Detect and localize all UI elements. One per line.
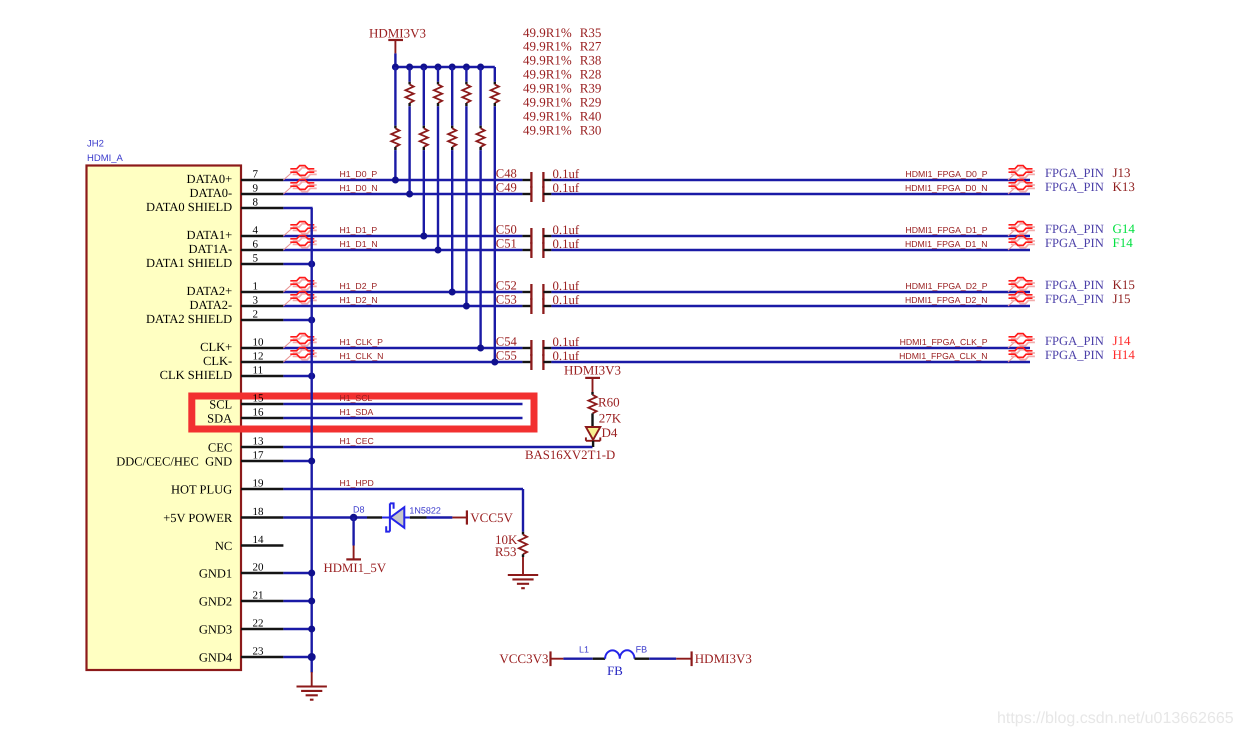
svg-text:DATA2 SHIELD: DATA2 SHIELD (146, 312, 232, 326)
differential pair marker on H1_D2_N (283, 292, 316, 306)
wire HDMI1_FPGA_D1_P right segment (551, 235, 1030, 237)
ground stem under connector (311, 672, 313, 687)
svg-text:C50: C50 (496, 223, 517, 237)
svg-text:H1_CEC: H1_CEC (340, 436, 374, 446)
svg-text:DATA2+: DATA2+ (187, 284, 233, 298)
svg-text:H14: H14 (1113, 347, 1136, 362)
differential pair marker on H1_D0_P (283, 166, 316, 180)
svg-text:BAS16XV2T1-D: BAS16XV2T1-D (525, 448, 615, 462)
pin 20 GND1 stub and number (199, 562, 284, 581)
svg-text:+5V POWER: +5V POWER (163, 511, 233, 525)
svg-text:GND2: GND2 (199, 594, 232, 608)
junction bus col 1 (392, 64, 399, 71)
value label 49.9R1% R30 (523, 122, 601, 137)
junction bus col 2 (406, 64, 413, 71)
svg-text:https://blog.csdn.net/u0136626: https://blog.csdn.net/u013662665 (997, 710, 1234, 727)
shield/ground bus vertical wire (311, 208, 313, 673)
value label 49.9R1% R29 (523, 95, 601, 110)
value label 49.9R1% R28 (523, 67, 601, 82)
svg-text:J15: J15 (1113, 291, 1131, 306)
junction bus col 4 (435, 64, 442, 71)
svg-text:DATA1 SHIELD: DATA1 SHIELD (146, 256, 232, 270)
svg-text:SCL: SCL (209, 397, 232, 411)
wire HDMI1_FPGA_D0_P right segment (551, 179, 1030, 181)
differential pair marker on HDMI1_FPGA_D2_N (1008, 292, 1035, 306)
svg-text:HDMI1_5V: HDMI1_5V (324, 561, 387, 575)
svg-text:H1_D0_P: H1_D0_P (340, 169, 378, 179)
svg-text:FPGA_PIN: FPGA_PIN (1045, 166, 1104, 180)
capacitor C53 0.1uf (496, 293, 580, 314)
differential pair marker on H1_CLK_N (283, 348, 316, 362)
port FPGA_PIN J13 (1045, 165, 1131, 180)
pin 15 SCL stub and number (209, 393, 283, 412)
wire H1_CLK_P left segment (283, 347, 522, 349)
svg-text:L1: L1 (579, 644, 589, 654)
junction bus GND1 (308, 570, 315, 577)
svg-text:49.9R1%: 49.9R1% (523, 53, 572, 68)
svg-text:F14: F14 (1113, 235, 1134, 250)
svg-text:C54: C54 (496, 335, 518, 349)
svg-text:FPGA_PIN: FPGA_PIN (1045, 236, 1104, 250)
ground symbol R53 (508, 575, 538, 588)
junction shield bus at pin 11 (308, 373, 315, 380)
wire DATA0 SHIELD to shield bus (283, 207, 312, 209)
resistor R60 27K (588, 392, 621, 427)
capacitor C55 0.1uf (496, 349, 580, 370)
svg-text:CEC: CEC (208, 440, 232, 454)
svg-text:GND3: GND3 (199, 622, 232, 636)
resistor R30 49.9R 1% (491, 67, 499, 362)
capacitor C51 0.1uf (496, 237, 580, 258)
svg-text:H1_D2_N: H1_D2_N (340, 295, 378, 305)
port FPGA_PIN G14 (1045, 221, 1135, 236)
wire H1_D1_P left segment (283, 235, 522, 237)
junction R39 to row wire (449, 289, 456, 296)
differential pair marker on HDMI1_FPGA_CLK_N (1008, 348, 1035, 362)
svg-text:5: 5 (253, 253, 259, 265)
svg-text:R30: R30 (580, 122, 602, 137)
svg-text:49.9R1%: 49.9R1% (523, 25, 572, 40)
svg-text:49.9R1%: 49.9R1% (523, 122, 572, 137)
diode D8 1N5822 schottky (382, 503, 410, 531)
svg-text:H1_CLK_P: H1_CLK_P (340, 337, 384, 347)
svg-text:FB: FB (636, 644, 648, 654)
wire GND1 to bus (283, 572, 311, 574)
svg-text:HDMI1_FPGA_CLK_N: HDMI1_FPGA_CLK_N (899, 351, 987, 361)
svg-text:R38: R38 (580, 53, 602, 68)
svg-text:6: 6 (253, 239, 259, 251)
svg-text:16: 16 (253, 407, 265, 419)
svg-text:C49: C49 (496, 181, 517, 195)
svg-text:GND4: GND4 (199, 650, 233, 664)
junction bus pin 17 (308, 458, 315, 465)
svg-text:8: 8 (253, 197, 259, 209)
svg-text:C48: C48 (496, 167, 517, 181)
svg-text:17: 17 (253, 450, 265, 462)
svg-text:H1_D1_N: H1_D1_N (340, 239, 378, 249)
differential pair marker on H1_D0_N (283, 180, 316, 194)
wire HDMI1_FPGA_CLK_P right segment (551, 347, 1030, 349)
svg-text:DATA1+: DATA1+ (187, 228, 233, 242)
capacitor C50 0.1uf (496, 223, 580, 244)
ground stem R53 (522, 557, 524, 575)
junction R30 to row wire (491, 359, 498, 366)
port FPGA_PIN J15 (1045, 291, 1131, 306)
differential pair marker on H1_CLK_P (283, 334, 316, 348)
wire L1 to HDMI3V3 (649, 658, 676, 660)
svg-text:FPGA_PIN: FPGA_PIN (1045, 278, 1104, 292)
svg-text:CLK-: CLK- (203, 354, 232, 368)
svg-text:49.9R1%: 49.9R1% (523, 67, 572, 82)
svg-text:4: 4 (253, 225, 259, 237)
wire +5V POWER row (283, 516, 367, 518)
red annotation rectangle around SCL/SDA (192, 396, 534, 429)
svg-text:D8: D8 (353, 504, 365, 514)
junction D8 anode node (350, 514, 358, 522)
svg-text:1N5822: 1N5822 (409, 505, 441, 515)
svg-text:H1_SCL: H1_SCL (340, 393, 373, 403)
svg-text:22: 22 (253, 618, 264, 630)
pin 9 DATA0- stub and number (189, 183, 283, 201)
wire HDMI1_FPGA_D2_N right segment (551, 305, 1030, 307)
svg-text:H1_SDA: H1_SDA (340, 407, 374, 417)
differential pair marker on HDMI1_FPGA_D1_P (1008, 222, 1035, 236)
power symbol HDMI1_5V (324, 546, 387, 575)
junction bus GND4 (308, 653, 316, 661)
svg-text:H1_D1_P: H1_D1_P (340, 225, 378, 235)
power symbol HDMI3V3 right (676, 651, 752, 666)
pin 2 DATA2 SHIELD stub and number (146, 309, 283, 327)
junction R28 to row wire (435, 247, 442, 254)
wire HDMI1_FPGA_D1_N right segment (551, 249, 1030, 251)
svg-text:G14: G14 (1113, 221, 1136, 236)
wire H1_SDA (283, 417, 522, 419)
wire HDMI1_FPGA_D2_P right segment (551, 291, 1030, 293)
pin 21 GND2 stub and number (199, 590, 284, 609)
junction shield bus at pin 5 (308, 261, 315, 268)
wire H1_D1_N left segment (283, 249, 522, 251)
svg-text:20: 20 (253, 562, 265, 574)
pin 19 HOT PLUG stub and number (171, 478, 283, 497)
svg-text:K15: K15 (1113, 277, 1135, 292)
svg-text:HDMI3V3: HDMI3V3 (564, 362, 621, 377)
bus wire HDMI3V3 horizontal (395, 66, 494, 68)
svg-text:H1_CLK_N: H1_CLK_N (340, 351, 384, 361)
svg-text:NC: NC (215, 539, 232, 553)
wire DATA1 SHIELD to shield bus (283, 263, 312, 265)
svg-text:18: 18 (253, 506, 265, 518)
svg-text:FB: FB (607, 664, 623, 678)
power symbol HDMI3V3 (R60 branch) (564, 362, 621, 392)
power symbol HDMI3V3 top (369, 25, 426, 53)
svg-text:DATA0+: DATA0+ (187, 172, 233, 186)
pin 16 SDA stub and number (207, 407, 283, 426)
svg-text:HDMI1_FPGA_D1_N: HDMI1_FPGA_D1_N (905, 239, 988, 249)
svg-text:HDMI1_FPGA_D2_N: HDMI1_FPGA_D2_N (905, 295, 988, 305)
svg-text:R60: R60 (598, 395, 620, 410)
junction bus col 6 (463, 64, 470, 71)
pin 12 CLK- stub and number (203, 351, 283, 369)
junction R38 to row wire (420, 233, 427, 240)
svg-text:K13: K13 (1113, 179, 1135, 194)
pin 10 CLK+ stub and number (200, 337, 283, 355)
value label 49.9R1% R38 (523, 53, 601, 68)
svg-text:19: 19 (253, 478, 265, 490)
svg-text:15: 15 (253, 393, 265, 405)
svg-text:R53: R53 (495, 544, 517, 559)
junction R29 to row wire (463, 303, 470, 310)
svg-text:C51: C51 (496, 237, 517, 251)
pin 3 DATA2- stub and number (189, 295, 283, 313)
pin 13 CEC stub and number (208, 436, 284, 455)
wire HDMI1_FPGA_CLK_N right segment (551, 361, 1030, 363)
svg-text:R40: R40 (580, 109, 602, 124)
svg-text:27K: 27K (599, 411, 622, 426)
capacitor C48 0.1uf (496, 167, 580, 188)
svg-text:FPGA_PIN: FPGA_PIN (1045, 334, 1104, 348)
svg-text:49.9R1%: 49.9R1% (523, 39, 572, 54)
lead L1 left (593, 658, 605, 660)
svg-text:3: 3 (253, 295, 259, 307)
svg-text:C52: C52 (496, 279, 517, 293)
pin 14 NC stub and number (215, 534, 284, 553)
svg-text:D4: D4 (602, 425, 618, 440)
port FPGA_PIN H14 (1045, 347, 1135, 362)
svg-text:DAT1A-: DAT1A- (188, 242, 232, 256)
wire DDC/CEC/HEC GND to bus (283, 460, 311, 462)
pin 17 DDC/CEC/HEC GND stub and number (116, 450, 283, 469)
svg-text:J13: J13 (1113, 165, 1131, 180)
inductor L1 FB (ferrite bead) (579, 644, 647, 678)
differential pair marker on HDMI1_FPGA_D0_N (1008, 180, 1035, 194)
port FPGA_PIN K13 (1045, 179, 1135, 194)
pin 7 DATA0+ stub and number (187, 169, 284, 187)
junction bus GND2 (308, 598, 315, 605)
power symbol VCC3V3 (499, 651, 563, 666)
svg-text:CLK SHIELD: CLK SHIELD (160, 368, 233, 382)
svg-text:13: 13 (253, 436, 265, 448)
wire CLK SHIELD to shield bus (283, 375, 312, 377)
svg-text:12: 12 (253, 351, 264, 363)
junction shield bus at pin 2 (308, 317, 315, 324)
value label 49.9R1% R40 (523, 109, 601, 124)
differential pair marker on HDMI1_FPGA_D0_P (1008, 166, 1035, 180)
svg-text:9: 9 (253, 183, 259, 195)
junction R40 to row wire (477, 345, 484, 352)
svg-text:J14: J14 (1113, 333, 1132, 348)
svg-text:CLK+: CLK+ (200, 340, 232, 354)
svg-text:H1_HPD: H1_HPD (340, 478, 374, 488)
svg-text:HDMI1_FPGA_D1_P: HDMI1_FPGA_D1_P (905, 225, 987, 235)
value label 49.9R1% R35 (523, 25, 601, 40)
svg-text:R29: R29 (580, 95, 602, 110)
svg-text:R35: R35 (580, 25, 602, 40)
svg-text:H1_D2_P: H1_D2_P (340, 281, 378, 291)
value label 49.9R1% R39 (523, 81, 601, 96)
svg-text:HDMI1_FPGA_D0_P: HDMI1_FPGA_D0_P (905, 169, 987, 179)
wire GND2 to bus (283, 600, 311, 602)
wire H1_SCL (283, 403, 522, 405)
svg-text:7: 7 (253, 169, 259, 181)
pin 23 GND4 stub and number (199, 646, 284, 665)
svg-text:DATA0-: DATA0- (189, 186, 232, 200)
svg-text:HDMI3V3: HDMI3V3 (695, 651, 752, 666)
pin 8 DATA0 SHIELD stub and number (146, 197, 283, 215)
capacitor C52 0.1uf (496, 279, 580, 300)
svg-text:1: 1 (253, 281, 259, 293)
wire DATA2 SHIELD to shield bus (283, 319, 312, 321)
svg-text:FPGA_PIN: FPGA_PIN (1045, 292, 1104, 306)
svg-text:DATA2-: DATA2- (189, 298, 232, 312)
svg-text:21: 21 (253, 590, 264, 602)
svg-text:HDMI_A: HDMI_A (87, 153, 124, 164)
wire VCC3V3 to L1 (563, 658, 592, 660)
power symbol VCC5V (452, 510, 513, 525)
svg-text:C55: C55 (496, 349, 517, 363)
junction bus col 7 (477, 64, 484, 71)
svg-text:10: 10 (253, 337, 265, 349)
svg-text:DDC/CEC/HEC GND: DDC/CEC/HEC GND (116, 454, 232, 468)
wire GND4 to bus (283, 656, 311, 658)
pin 4 DATA1+ stub and number (187, 225, 284, 243)
differential pair marker on H1_D1_P (283, 222, 316, 236)
svg-text:SDA: SDA (207, 411, 232, 425)
svg-text:HDMI1_FPGA_CLK_P: HDMI1_FPGA_CLK_P (900, 337, 988, 347)
resistor R53 10K (495, 532, 527, 559)
lead after diode (410, 516, 427, 518)
svg-text:JH2: JH2 (87, 139, 104, 150)
wire H1_D0_P left segment (283, 179, 522, 181)
svg-text:14: 14 (253, 534, 265, 546)
port FPGA_PIN F14 (1045, 235, 1133, 250)
pin 11 CLK SHIELD stub and number (160, 365, 284, 383)
svg-text:VCC3V3: VCC3V3 (499, 651, 548, 666)
pin 1 DATA2+ stub and number (187, 281, 284, 299)
svg-text:R28: R28 (580, 67, 602, 82)
svg-text:FPGA_PIN: FPGA_PIN (1045, 222, 1104, 236)
svg-text:DATA0 SHIELD: DATA0 SHIELD (146, 200, 232, 214)
capacitor C49 0.1uf (496, 181, 580, 202)
differential pair marker on H1_D1_N (283, 236, 316, 250)
pin 5 DATA1 SHIELD stub and number (146, 253, 283, 271)
svg-text:HDMI1_FPGA_D0_N: HDMI1_FPGA_D0_N (905, 183, 988, 193)
svg-text:VCC5V: VCC5V (470, 510, 513, 525)
svg-text:49.9R1%: 49.9R1% (523, 81, 572, 96)
svg-text:11: 11 (253, 365, 264, 377)
junction R35 to row wire (392, 177, 399, 184)
svg-text:23: 23 (253, 646, 265, 658)
svg-text:H1_D0_N: H1_D0_N (340, 183, 378, 193)
svg-text:FPGA_PIN: FPGA_PIN (1045, 180, 1104, 194)
connector JH2 HDMI_A body (87, 166, 242, 671)
wire H1_HPD (283, 488, 523, 490)
pin 6 DAT1A- stub and number (188, 239, 283, 257)
wire D8 node down (352, 518, 354, 546)
wire H1_D2_N left segment (283, 305, 522, 307)
pin 22 GND3 stub and number (199, 618, 284, 637)
svg-text:FPGA_PIN: FPGA_PIN (1045, 348, 1104, 362)
wire H1_CEC (283, 446, 592, 448)
wire H1_D0_N left segment (283, 193, 522, 195)
wire H1_D2_P left segment (283, 291, 522, 293)
svg-text:HDMI3V3: HDMI3V3 (369, 25, 426, 40)
wire HPD down to R53 (522, 489, 524, 532)
wire GND3 to bus (283, 628, 311, 630)
diode D4 BAS16XV2T1-D (586, 425, 618, 447)
port FPGA_PIN K15 (1045, 277, 1135, 292)
junction bus GND3 (308, 626, 315, 633)
svg-text:R27: R27 (580, 39, 602, 54)
svg-text:R39: R39 (580, 81, 602, 96)
differential pair marker on HDMI1_FPGA_D2_P (1008, 278, 1035, 292)
wire power stem to bus (394, 53, 396, 67)
svg-text:49.9R1%: 49.9R1% (523, 95, 572, 110)
differential pair marker on H1_D2_P (283, 278, 316, 292)
capacitor C54 0.1uf (496, 335, 580, 356)
wire HDMI1_FPGA_D0_N right segment (551, 193, 1030, 195)
junction R27 to row wire (406, 191, 413, 198)
port FPGA_PIN J14 (1045, 333, 1131, 348)
ground symbol under connector (297, 687, 327, 700)
differential pair marker on HDMI1_FPGA_D1_N (1008, 236, 1035, 250)
wire to VCC5V (427, 516, 453, 518)
lead to diode (367, 516, 382, 518)
differential pair marker on HDMI1_FPGA_CLK_P (1008, 334, 1035, 348)
junction bus col 5 (449, 64, 456, 71)
svg-text:GND1: GND1 (199, 566, 232, 580)
wire H1_CLK_N left segment (283, 361, 522, 363)
svg-text:C53: C53 (496, 293, 517, 307)
value label 49.9R1% R27 (523, 39, 602, 54)
pin 18 +5V POWER stub and number (163, 506, 283, 525)
svg-text:49.9R1%: 49.9R1% (523, 109, 572, 124)
lead L1 right (635, 658, 650, 660)
svg-text:2: 2 (253, 309, 259, 321)
svg-text:HDMI1_FPGA_D2_P: HDMI1_FPGA_D2_P (905, 281, 987, 291)
junction bus col 3 (420, 64, 427, 71)
svg-text:HOT PLUG: HOT PLUG (171, 482, 232, 496)
